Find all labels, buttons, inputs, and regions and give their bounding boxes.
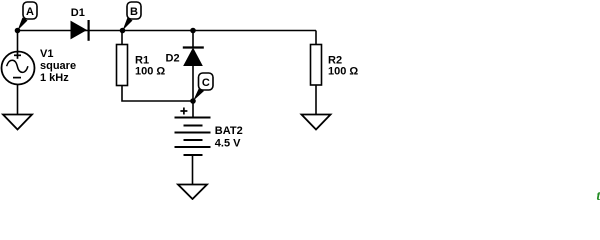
wire node C to battery top [192,101,194,118]
wire bus down to D2 cathode [192,31,194,48]
svg-text:square: square [40,60,76,72]
svg-text:A: A [26,6,34,18]
node B [120,2,141,33]
label D2 [166,53,180,65]
svg-text:100 Ω: 100 Ω [328,66,358,78]
label D1 [71,7,85,19]
svg-text:BAT2: BAT2 [215,125,243,137]
svg-text:1 kHz: 1 kHz [40,72,69,84]
node A [15,2,37,33]
wire node A down to V1 top [17,31,19,53]
wire V1 bottom to ground [17,85,19,115]
junction dot at D2 top on bus [190,28,196,34]
wire node B down to R1 [121,31,123,45]
svg-text:t: t [597,188,600,200]
label R1 100 Ohm [135,54,165,77]
voltage source V1 [2,52,35,85]
ground below battery [178,185,207,200]
ground below R2 [302,115,331,130]
diode D2 [183,48,204,66]
wire bus corner down to R2 [315,31,317,45]
battery BAT2 plus sign [180,108,187,115]
resistor R2 [311,45,322,86]
svg-text:D2: D2 [166,53,180,65]
battery BAT2 plates [175,118,211,156]
label R2 100 Ohm [328,55,358,78]
svg-text:B: B [130,6,138,18]
svg-text:100 Ω: 100 Ω [135,66,165,78]
wire top bus from node A through D1, B, D2 to R2 corner [18,30,317,32]
svg-text:4.5 V: 4.5 V [215,137,241,149]
ground below V1 [3,115,32,130]
wire battery bottom to ground [192,155,194,185]
label BAT2 4.5 V [215,125,243,149]
node C [190,73,213,104]
svg-text:V1: V1 [40,48,53,60]
svg-text:D1: D1 [71,7,85,19]
svg-text:R1: R1 [135,54,149,66]
label V1 square 1 kHz [40,48,76,84]
wire R2 bottom to ground [315,85,317,115]
wire D2 anode to node C [192,66,194,102]
svg-text:C: C [202,77,210,89]
resistor R1 [117,45,128,86]
diode D1 [71,20,89,41]
watermark letter t green [597,188,600,203]
wire R1 bottom bend to node C [122,86,193,102]
